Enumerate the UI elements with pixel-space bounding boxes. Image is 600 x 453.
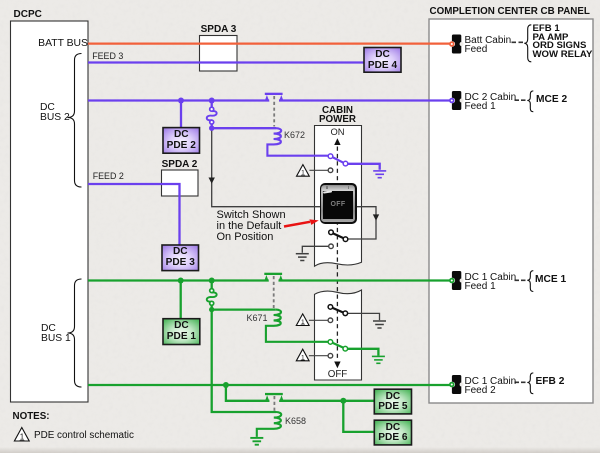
svg-text:1: 1 bbox=[20, 432, 25, 441]
